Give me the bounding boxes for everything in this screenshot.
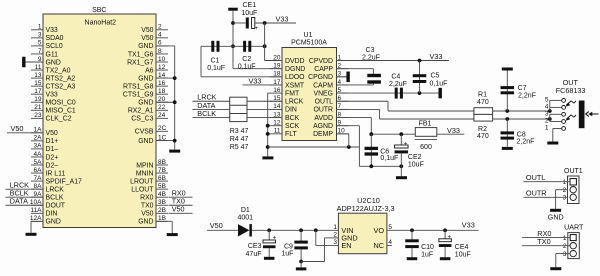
svg-text:ADP122AUJZ-3,3: ADP122AUJZ-3,3 <box>337 204 395 213</box>
svg-text:XSMT: XSMT <box>285 82 305 89</box>
svg-text:6B: 6B <box>158 175 166 182</box>
svg-text:MISO_C1: MISO_C1 <box>46 108 76 115</box>
svg-text:TX0: TX0 <box>537 237 550 246</box>
svg-text:10: 10 <box>158 56 166 63</box>
svg-text:D2+: D2+ <box>46 154 59 161</box>
svg-text:RTS2_A2: RTS2_A2 <box>46 75 76 82</box>
svg-text:UART: UART <box>564 224 584 232</box>
svg-text:V33: V33 <box>249 76 262 85</box>
svg-text:SDA0: SDA0 <box>46 35 64 42</box>
svg-text:VNEG: VNEG <box>313 90 333 97</box>
svg-text:AGND: AGND <box>313 123 333 130</box>
svg-text:LDOO: LDOO <box>285 74 305 81</box>
svg-text:7A: 7A <box>34 175 43 182</box>
svg-text:CAPP: CAPP <box>314 66 333 73</box>
svg-text:1: 1 <box>563 179 567 186</box>
svg-text:2: 2 <box>545 118 549 125</box>
svg-text:12: 12 <box>273 120 281 127</box>
svg-text:V50: V50 <box>210 221 223 230</box>
svg-text:TX0: TX0 <box>141 203 154 210</box>
svg-text:CE4: CE4 <box>455 244 469 251</box>
svg-text:D1–: D1– <box>46 146 59 153</box>
svg-text:4: 4 <box>158 32 162 39</box>
svg-text:R3 47: R3 47 <box>230 128 249 135</box>
svg-text:3: 3 <box>563 251 567 258</box>
svg-text:VO: VO <box>373 226 384 235</box>
svg-text:18: 18 <box>158 88 166 95</box>
svg-text:DGND: DGND <box>285 66 305 73</box>
svg-text:V50: V50 <box>11 124 24 133</box>
svg-text:NC: NC <box>373 241 384 250</box>
svg-text:GND: GND <box>548 213 564 221</box>
svg-text:OUT1: OUT1 <box>564 168 583 175</box>
svg-text:11: 11 <box>274 128 281 135</box>
svg-text:RTS1_G8: RTS1_G8 <box>123 83 154 90</box>
svg-text:0,1uF: 0,1uF <box>380 155 398 162</box>
svg-text:GND: GND <box>138 43 153 50</box>
svg-text:GND: GND <box>138 75 153 82</box>
svg-text:C1: C1 <box>211 57 220 64</box>
svg-text:1: 1 <box>563 235 567 242</box>
svg-text:2: 2 <box>563 243 567 250</box>
svg-text:47uF: 47uF <box>246 251 262 258</box>
svg-text:RX1_G7: RX1_G7 <box>127 59 154 66</box>
svg-text:4A: 4A <box>34 151 43 158</box>
svg-text:0,1uF: 0,1uF <box>238 64 256 71</box>
svg-text:12: 12 <box>158 64 166 71</box>
svg-text:GND: GND <box>138 138 153 145</box>
svg-text:3: 3 <box>38 32 42 39</box>
svg-text:C2: C2 <box>242 56 251 63</box>
svg-text:3: 3 <box>333 239 337 246</box>
svg-text:BCLK: BCLK <box>197 109 216 118</box>
svg-text:IR L11: IR L11 <box>46 170 66 177</box>
svg-text:+: + <box>255 26 259 32</box>
svg-text:SBC: SBC <box>92 7 106 14</box>
svg-text:C10: C10 <box>421 244 434 251</box>
svg-text:G11: G11 <box>46 51 59 58</box>
svg-text:DIN: DIN <box>46 211 58 218</box>
svg-text:V50: V50 <box>141 35 153 42</box>
svg-text:CVSB: CVSB <box>135 129 154 136</box>
svg-text:PCM5100A: PCM5100A <box>291 40 327 47</box>
svg-text:5: 5 <box>38 40 42 47</box>
svg-text:DVDD: DVDD <box>285 58 305 65</box>
svg-text:2C: 2C <box>158 125 167 132</box>
svg-text:OUTL: OUTL <box>526 173 545 182</box>
svg-text:0,1uF: 0,1uF <box>430 81 448 88</box>
svg-text:GND: GND <box>46 59 61 66</box>
svg-text:2B: 2B <box>158 207 166 214</box>
svg-text:MPIN: MPIN <box>136 162 153 169</box>
svg-text:CE2: CE2 <box>408 154 422 161</box>
svg-text:1: 1 <box>333 224 337 231</box>
svg-text:V50: V50 <box>141 27 153 34</box>
svg-text:V33: V33 <box>462 221 475 230</box>
svg-text:1uF: 1uF <box>421 252 433 259</box>
svg-text:GND: GND <box>138 219 153 226</box>
svg-text:22: 22 <box>158 104 166 111</box>
svg-text:21: 21 <box>34 104 42 111</box>
svg-text:2: 2 <box>563 187 567 194</box>
svg-text:3B: 3B <box>158 199 166 206</box>
svg-text:3: 3 <box>545 110 549 117</box>
svg-text:16: 16 <box>158 80 166 87</box>
svg-text:16: 16 <box>273 87 281 94</box>
svg-text:V33: V33 <box>447 126 460 135</box>
svg-text:V33: V33 <box>46 27 58 34</box>
svg-text:V33: V33 <box>46 92 58 99</box>
svg-text:TX1_G6: TX1_G6 <box>128 51 154 58</box>
svg-text:A6: A6 <box>145 67 154 74</box>
svg-text:DOUT: DOUT <box>46 203 66 210</box>
svg-text:4B: 4B <box>158 191 166 198</box>
svg-text:13: 13 <box>34 72 42 79</box>
svg-text:R5 47: R5 47 <box>230 144 249 151</box>
svg-text:C7: C7 <box>518 85 527 92</box>
svg-text:4: 4 <box>388 239 392 246</box>
svg-text:10uF: 10uF <box>408 162 424 169</box>
svg-text:C3: C3 <box>366 47 375 54</box>
svg-text:2,2nF: 2,2nF <box>517 139 535 146</box>
svg-text:2,2uF: 2,2uF <box>389 81 407 88</box>
svg-text:BCK: BCK <box>285 115 300 122</box>
svg-text:4001: 4001 <box>238 215 254 222</box>
svg-text:6A: 6A <box>34 167 43 174</box>
svg-text:CAPM: CAPM <box>313 82 333 89</box>
svg-text:FC68133: FC68133 <box>556 86 586 95</box>
svg-text:10uF: 10uF <box>455 252 471 259</box>
svg-text:DIN: DIN <box>285 107 297 114</box>
svg-text:17: 17 <box>34 88 42 95</box>
svg-text:7: 7 <box>38 48 42 55</box>
svg-text:CE3: CE3 <box>248 243 262 250</box>
svg-text:470: 470 <box>477 99 489 106</box>
svg-text:MOSI_C0: MOSI_C0 <box>46 100 76 107</box>
svg-text:470: 470 <box>477 133 489 140</box>
svg-text:C4: C4 <box>391 73 400 80</box>
svg-text:R4 47: R4 47 <box>230 136 249 143</box>
svg-text:2,2nF: 2,2nF <box>518 92 536 99</box>
svg-text:3A: 3A <box>34 143 43 150</box>
svg-text:FB1: FB1 <box>419 121 432 128</box>
svg-text:LROUT: LROUT <box>130 178 154 185</box>
svg-text:CLK_C2: CLK_C2 <box>46 116 72 123</box>
svg-text:V50: V50 <box>46 130 58 137</box>
svg-text:CTS2_A3: CTS2_A3 <box>46 83 76 90</box>
svg-text:GND: GND <box>138 100 153 107</box>
svg-text:7B: 7B <box>158 167 166 174</box>
svg-text:DEMP: DEMP <box>313 131 333 138</box>
svg-text:NanoHat2: NanoHat2 <box>85 20 117 27</box>
svg-text:600: 600 <box>420 144 432 151</box>
svg-text:TX2_A0: TX2_A0 <box>46 67 71 74</box>
svg-text:8: 8 <box>158 48 162 55</box>
svg-text:0,1uF: 0,1uF <box>207 65 225 72</box>
svg-text:23: 23 <box>34 112 42 119</box>
svg-text:LRCK: LRCK <box>285 99 304 106</box>
svg-text:C9: C9 <box>284 243 293 250</box>
svg-text:AVDD: AVDD <box>314 115 333 122</box>
svg-text:OUTL: OUTL <box>315 99 334 106</box>
svg-text:C5: C5 <box>431 72 440 79</box>
svg-text:2,2uF: 2,2uF <box>362 54 380 61</box>
svg-text:V33: V33 <box>430 52 443 61</box>
svg-text:2: 2 <box>158 24 162 31</box>
svg-text:2: 2 <box>333 231 337 238</box>
svg-text:11: 11 <box>35 64 42 71</box>
svg-text:1: 1 <box>545 125 549 132</box>
svg-text:5: 5 <box>545 96 549 103</box>
svg-text:C8: C8 <box>517 131 526 138</box>
svg-text:D1: D1 <box>241 207 250 214</box>
svg-text:SPDIF_A17: SPDIF_A17 <box>46 178 83 185</box>
svg-text:19: 19 <box>34 96 42 103</box>
svg-text:5: 5 <box>388 224 392 231</box>
svg-text:CPGND: CPGND <box>308 74 333 81</box>
svg-text:2A: 2A <box>34 135 43 142</box>
svg-text:D2–: D2– <box>46 162 59 169</box>
svg-text:FLT: FLT <box>285 131 298 138</box>
svg-text:1uF: 1uF <box>281 251 293 258</box>
svg-text:EN: EN <box>341 241 351 250</box>
svg-text:FMT: FMT <box>285 90 300 97</box>
svg-text:15: 15 <box>34 80 42 87</box>
svg-text:10uF: 10uF <box>241 10 257 17</box>
svg-text:BCLK: BCLK <box>46 195 64 202</box>
svg-text:MNIN: MNIN <box>136 170 154 177</box>
svg-text:8B: 8B <box>158 159 166 166</box>
svg-text:U1: U1 <box>304 32 313 39</box>
svg-text:OUTR: OUTR <box>526 188 547 197</box>
svg-text:RX0: RX0 <box>140 195 154 202</box>
svg-text:3: 3 <box>563 195 567 202</box>
svg-text:SCL0: SCL0 <box>46 43 63 50</box>
svg-text:V50: V50 <box>141 211 153 218</box>
svg-text:LLOUT: LLOUT <box>131 186 154 193</box>
svg-text:RX2_A1: RX2_A1 <box>128 108 154 115</box>
svg-text:SCK: SCK <box>285 123 300 130</box>
svg-text:CS_C3: CS_C3 <box>131 116 153 123</box>
svg-text:11A: 11A <box>30 207 42 214</box>
svg-text:CTS1_G9: CTS1_G9 <box>123 92 154 99</box>
svg-text:5B: 5B <box>158 183 166 190</box>
svg-text:D1+: D1+ <box>46 138 59 145</box>
svg-text:CE1: CE1 <box>242 2 256 9</box>
svg-text:1: 1 <box>38 24 42 31</box>
svg-text:V50: V50 <box>172 205 185 214</box>
svg-text:OUTR: OUTR <box>313 107 333 114</box>
svg-text:LRCK: LRCK <box>46 186 65 193</box>
svg-text:5A: 5A <box>34 159 43 166</box>
svg-text:V33: V33 <box>276 14 289 23</box>
svg-text:CPVDD: CPVDD <box>309 58 333 65</box>
svg-text:GND: GND <box>46 219 61 226</box>
svg-text:R1: R1 <box>478 92 487 99</box>
svg-text:DATA: DATA <box>10 197 28 206</box>
svg-text:R2: R2 <box>478 126 487 133</box>
svg-text:24: 24 <box>158 112 166 119</box>
